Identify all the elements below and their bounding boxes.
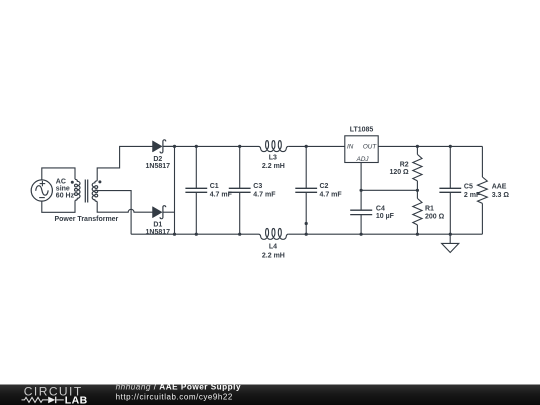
svg-text:2.2 mH: 2.2 mH <box>262 163 285 170</box>
svg-text:4.7 mF: 4.7 mF <box>253 192 276 199</box>
svg-text:D2: D2 <box>153 156 162 163</box>
svg-text:LAB: LAB <box>65 394 88 405</box>
svg-text:L4: L4 <box>269 244 277 251</box>
svg-text:10 µF: 10 µF <box>376 213 395 220</box>
svg-text:AAE: AAE <box>492 183 507 190</box>
svg-text:OUT: OUT <box>363 144 377 151</box>
svg-text:C4: C4 <box>376 206 385 213</box>
svg-text:4.7 mF: 4.7 mF <box>320 192 343 199</box>
svg-text:R1: R1 <box>425 205 434 212</box>
svg-text:1N5817: 1N5817 <box>146 229 171 236</box>
svg-text:D1: D1 <box>153 221 162 228</box>
svg-text:120 Ω: 120 Ω <box>389 169 409 176</box>
svg-text:IN: IN <box>347 144 354 151</box>
svg-text:http://circuitlab.com/cye9h22: http://circuitlab.com/cye9h22 <box>116 392 233 401</box>
svg-text:4.7 mF: 4.7 mF <box>210 192 233 199</box>
svg-text:3.3 Ω: 3.3 Ω <box>492 192 510 199</box>
svg-text:2.2 mH: 2.2 mH <box>262 252 285 259</box>
svg-text:1N5817: 1N5817 <box>146 163 171 170</box>
svg-text:200 Ω: 200 Ω <box>425 214 445 221</box>
svg-text:C1: C1 <box>210 183 219 190</box>
svg-text:ADJ: ADJ <box>356 156 370 163</box>
svg-text:C3: C3 <box>253 183 262 190</box>
svg-text:C5: C5 <box>464 183 473 190</box>
svg-text:Power Transformer: Power Transformer <box>54 216 118 223</box>
svg-text:LT1085: LT1085 <box>350 127 374 134</box>
svg-text:hhhuang / AAE Power Supply: hhhuang / AAE Power Supply <box>116 382 241 391</box>
svg-text:L3: L3 <box>269 155 277 162</box>
svg-text:C2: C2 <box>320 183 329 190</box>
svg-text:R2: R2 <box>400 162 409 169</box>
svg-text:60 Hz: 60 Hz <box>56 192 75 199</box>
